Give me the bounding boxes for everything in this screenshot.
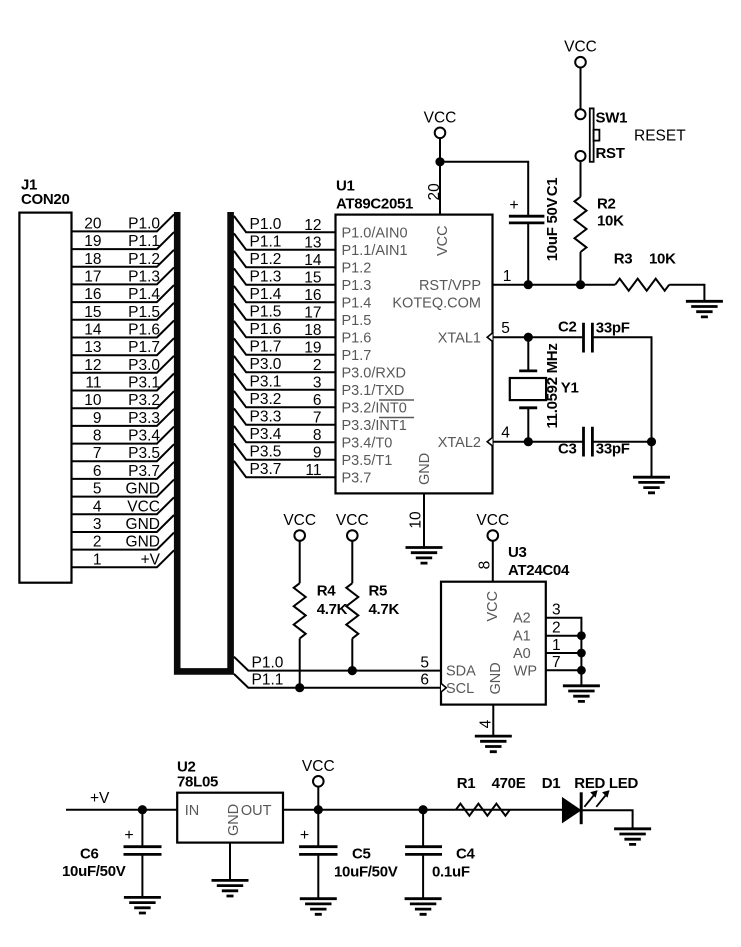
wire J1 pin 1 net +V: [72, 550, 175, 568]
svg-text:7: 7: [313, 410, 322, 427]
svg-text:P3.1/TXD: P3.1/TXD: [342, 383, 405, 399]
diode D1 RED LED: [542, 775, 639, 824]
svg-text:A0: A0: [513, 646, 531, 662]
svg-text:P3.3: P3.3: [128, 410, 160, 427]
svg-text:D1: D1: [542, 775, 561, 792]
ground (U3 pin 4): [475, 736, 512, 752]
svg-text:P3.5: P3.5: [250, 444, 282, 461]
svg-text:VCC: VCC: [564, 39, 597, 56]
resistor R1 470E: [456, 775, 526, 816]
wire U1 P3.0/RXD pin 2: [234, 356, 336, 374]
svg-text:6: 6: [420, 672, 429, 689]
wire U1 P1.3 pin 15: [234, 268, 336, 286]
resistor R5 4.7K: [346, 541, 399, 671]
svg-text:R4: R4: [317, 583, 337, 600]
wire U1 P1.1/AIN1 pin 13: [234, 233, 336, 251]
svg-text:Y1: Y1: [561, 379, 579, 396]
U1 text KOTEQ.COM: [392, 296, 481, 312]
U1 pin name P1.0/AIN0: [342, 226, 408, 242]
wire VCC to U1 pin 20: [426, 138, 443, 215]
svg-text:GND: GND: [126, 516, 160, 533]
U3 pin name A1: [513, 629, 531, 645]
wire +V input: [66, 790, 177, 810]
node junction VCC/C1: [435, 157, 444, 166]
svg-text:5: 5: [420, 655, 429, 672]
U3 pin name A2: [513, 611, 531, 627]
svg-text:SW1: SW1: [596, 110, 628, 127]
svg-text:4.7K: 4.7K: [369, 601, 400, 618]
svg-text:WP: WP: [514, 664, 537, 680]
U1 pin name P3.7: [342, 471, 372, 487]
wire U1 P3.1/TXD pin 3: [234, 373, 336, 391]
node junction XTAL1/Y1: [524, 333, 533, 342]
svg-text:GND: GND: [226, 804, 242, 836]
wire J1 pin 7 net P3.5: [72, 444, 175, 462]
svg-text:5: 5: [93, 481, 102, 498]
node junction C5: [314, 805, 323, 814]
svg-text:P1.6: P1.6: [250, 321, 282, 338]
svg-text:RST/VPP: RST/VPP: [419, 278, 481, 294]
svg-text:P3.5: P3.5: [128, 445, 160, 462]
svg-text:16: 16: [304, 287, 321, 304]
svg-text:R5: R5: [369, 583, 388, 600]
svg-text:VCC: VCC: [336, 512, 369, 529]
ground (R3): [686, 301, 723, 317]
svg-text:P1.1/AIN1: P1.1/AIN1: [342, 243, 408, 259]
wire J1 pin 18 net P1.2: [72, 250, 175, 268]
svg-text:XTAL1: XTAL1: [438, 331, 481, 347]
svg-text:P1.5: P1.5: [128, 304, 160, 321]
svg-text:C4: C4: [456, 846, 476, 863]
svg-text:1: 1: [552, 637, 561, 654]
svg-text:P3.0: P3.0: [250, 356, 282, 373]
svg-text:P1.2: P1.2: [250, 251, 282, 268]
wire J1 pin 20 net P1.0: [72, 214, 175, 232]
svg-text:P1.2: P1.2: [342, 261, 372, 277]
svg-text:R2: R2: [597, 196, 616, 213]
svg-text:0.1uF: 0.1uF: [432, 864, 470, 881]
wire VCC stub: [317, 787, 319, 810]
U3 pin name VCC (rotated): [485, 591, 501, 622]
wire U1 P1.2 pin 14: [234, 251, 336, 269]
svg-text:6: 6: [93, 463, 102, 480]
wire U1 P1.6 pin 18: [234, 321, 336, 339]
wire U1 pin 10 GND: [408, 493, 425, 547]
svg-text:AT24C04: AT24C04: [508, 562, 570, 579]
U1 pin name P3.1/TXD: [342, 383, 405, 399]
U1 pin name P3.0/RXD: [342, 366, 406, 382]
svg-text:P3.2: P3.2: [128, 392, 160, 409]
U1 pin name GND (rotated): [417, 453, 433, 485]
power VCC (R4): [283, 512, 316, 541]
svg-text:11: 11: [305, 462, 321, 479]
power VCC (U3 pin 8): [476, 512, 509, 541]
svg-text:P1.3: P1.3: [128, 268, 160, 285]
svg-text:P1.1: P1.1: [250, 234, 282, 251]
U1 pin name P3.5/T1: [342, 453, 393, 469]
U2 pin name OUT: [241, 803, 272, 819]
svg-text:P3.7: P3.7: [342, 471, 372, 487]
svg-text:R1: R1: [457, 775, 476, 792]
wire J1 pin 8 net P3.4: [72, 427, 175, 445]
resistor R3 10K: [614, 250, 676, 290]
svg-text:4: 4: [93, 498, 102, 515]
wire U1 P3.4/T0 pin 8: [234, 426, 336, 444]
svg-text:P1.5: P1.5: [250, 304, 282, 321]
svg-text:+V: +V: [90, 790, 110, 807]
svg-text:17: 17: [304, 305, 321, 322]
node junction R5/SDA: [348, 666, 357, 675]
ground (C6): [124, 897, 161, 913]
svg-text:A1: A1: [513, 629, 531, 645]
wire J1 pin 11 net P3.1: [72, 374, 175, 392]
power VCC (U2 output): [302, 758, 335, 787]
microcontroller U1 AT89C2051: [336, 178, 493, 494]
ground (U3 address pins): [563, 686, 600, 702]
svg-text:3: 3: [313, 375, 322, 392]
wire U3 pin 2 A1: [546, 620, 586, 641]
svg-text:7: 7: [552, 654, 561, 671]
node junction C4: [419, 805, 428, 814]
svg-text:P3.1: P3.1: [250, 374, 282, 391]
svg-text:P3.4: P3.4: [250, 426, 282, 443]
wire U1 P3.7 pin 11: [234, 461, 336, 479]
wire U1 P3.5/T1 pin 9: [234, 443, 336, 461]
svg-text:12: 12: [84, 357, 101, 374]
power VCC (U1 pin 20): [424, 109, 457, 138]
wire U1 P1.4 pin 16: [234, 286, 336, 304]
ground (U1): [406, 548, 443, 564]
eeprom U3 AT24C04: [441, 544, 570, 705]
node junction R4/SCL: [295, 683, 304, 692]
svg-text:VCC: VCC: [476, 512, 509, 529]
U3 pin name WP: [514, 664, 537, 680]
svg-text:P1.1: P1.1: [128, 233, 160, 250]
wire U3 pin 4 GND: [478, 705, 495, 737]
svg-text:4.7K: 4.7K: [317, 601, 348, 618]
U1 pin name P3.4/T0: [342, 436, 393, 452]
svg-text:2: 2: [552, 620, 561, 637]
svg-text:+: +: [509, 197, 518, 214]
svg-text:11: 11: [85, 375, 101, 392]
wire VCC to U3 pin 8: [477, 541, 494, 582]
ground (D1): [614, 829, 651, 845]
wire J1 pin 5 net GND: [72, 480, 175, 498]
svg-text:9: 9: [93, 410, 102, 427]
U1 pin name P1.3: [342, 278, 372, 294]
svg-text:RED LED: RED LED: [574, 775, 638, 792]
wire J1 pin 15 net P1.5: [72, 303, 175, 321]
wire U1 P3.2/INT0 pin 6: [234, 391, 336, 409]
svg-text:P3.3: P3.3: [250, 409, 282, 426]
wire VCC branch to C1: [440, 162, 528, 215]
ground (C4): [405, 899, 442, 915]
svg-text:2: 2: [93, 534, 102, 551]
crystal Y1 11.0592 MHz: [510, 337, 579, 442]
svg-text:P1.1: P1.1: [252, 672, 284, 689]
svg-text:CON20: CON20: [21, 191, 70, 208]
svg-text:+: +: [300, 827, 309, 844]
wire U2 GND pin: [229, 843, 231, 881]
svg-text:+: +: [124, 827, 133, 844]
svg-text:15: 15: [304, 270, 321, 287]
svg-text:P1.0: P1.0: [250, 216, 282, 233]
svg-text:P1.7: P1.7: [342, 348, 372, 364]
ground (U2): [212, 880, 249, 896]
capacitor C5 10uF/50V (polarized): [299, 810, 398, 899]
svg-text:5: 5: [501, 320, 510, 337]
wire R3 to ground: [669, 285, 704, 302]
svg-text:SCL: SCL: [446, 681, 474, 697]
svg-text:U1: U1: [336, 178, 355, 195]
svg-text:78L05: 78L05: [177, 774, 218, 791]
wire J1 pin 3 net GND: [72, 515, 175, 533]
U3 pin name A0: [513, 646, 531, 662]
svg-text:17: 17: [84, 268, 101, 285]
svg-text:13: 13: [304, 235, 321, 252]
svg-text:8: 8: [93, 428, 102, 445]
svg-text:4: 4: [501, 424, 510, 441]
svg-text:15: 15: [84, 304, 101, 321]
svg-text:P1.7: P1.7: [128, 339, 160, 356]
svg-text:10uF/50V: 10uF/50V: [62, 863, 126, 880]
svg-text:P3.4: P3.4: [128, 428, 160, 445]
svg-text:P1.0/AIN0: P1.0/AIN0: [342, 226, 408, 242]
wire U3 pin 1 A0: [546, 637, 586, 658]
svg-text:2: 2: [313, 357, 322, 374]
U1 pin name VCC (rotated): [435, 225, 451, 256]
U1 pin name P1.2: [342, 261, 372, 277]
wire D1 cathode to ground: [581, 810, 632, 829]
wire J1 pin 16 net P1.4: [72, 285, 175, 303]
svg-text:33pF: 33pF: [596, 319, 630, 336]
U1 pin name P1.7: [342, 348, 372, 364]
svg-text:3: 3: [552, 602, 561, 619]
wire U1 pin 4 XTAL2: [493, 424, 584, 441]
wire U1 P1.0/AIN0 pin 12: [234, 216, 336, 234]
U1 pin name XTAL1 with clock chevron: [438, 331, 493, 347]
svg-text:P3.3/INT1: P3.3/INT1: [342, 418, 407, 434]
wire J1 pin 9 net P3.3: [72, 409, 175, 427]
svg-text:9: 9: [313, 445, 322, 462]
svg-text:P1.0: P1.0: [252, 655, 284, 672]
svg-text:P3.5/T1: P3.5/T1: [342, 453, 393, 469]
svg-text:16: 16: [84, 286, 101, 303]
U3 pin name SDA: [446, 664, 476, 680]
svg-text:P3.0/RXD: P3.0/RXD: [342, 366, 406, 382]
svg-text:1: 1: [93, 551, 102, 568]
svg-text:P1.3: P1.3: [342, 278, 372, 294]
svg-text:4: 4: [478, 719, 495, 728]
capacitor C6 10uF/50V (polarized): [62, 810, 162, 898]
node junction C3/right rail: [592, 437, 656, 477]
svg-text:10: 10: [408, 511, 425, 529]
node junction C1/RST: [524, 280, 533, 289]
wire U1 P3.3/INT1 pin 7: [234, 408, 336, 426]
svg-text:12: 12: [304, 217, 321, 234]
svg-text:20: 20: [426, 183, 443, 201]
svg-text:GND: GND: [417, 453, 433, 485]
svg-text:P1.6: P1.6: [128, 322, 160, 339]
ground (XTAL): [633, 477, 670, 493]
U2 pin name GND (rotated): [226, 804, 242, 836]
svg-text:6: 6: [313, 392, 322, 409]
svg-text:470E: 470E: [492, 775, 526, 792]
wire J1 pin 2 net GND: [72, 533, 175, 551]
U1 pin name P1.6: [342, 331, 372, 347]
wire J1 pin 10 net P3.2: [72, 391, 175, 409]
svg-text:8: 8: [313, 427, 322, 444]
capacitor C1 10uF 50V (polarized): [509, 178, 561, 285]
svg-text:8: 8: [477, 561, 494, 570]
wire J1 pin 4 net VCC: [72, 497, 175, 515]
svg-text:33pF: 33pF: [596, 440, 630, 457]
svg-text:19: 19: [84, 233, 101, 250]
resistor R2 10K: [575, 196, 625, 252]
wire U3 pin 7 WP: [546, 654, 586, 675]
ground (C5): [300, 899, 337, 915]
svg-text:C6: C6: [80, 846, 99, 863]
svg-text:14: 14: [304, 252, 322, 269]
svg-text:P3.4/T0: P3.4/T0: [342, 436, 393, 452]
svg-text:C5: C5: [352, 846, 371, 863]
svg-text:VCC: VCC: [424, 109, 457, 126]
svg-text:P3.0: P3.0: [128, 357, 160, 374]
capacitor C3 33pF: [558, 427, 630, 458]
wire J1 pin 6 net P3.7: [72, 462, 175, 480]
U1 pin name P3.3/INT1: [342, 418, 415, 435]
svg-text:GND: GND: [126, 481, 160, 498]
svg-text:P1.7: P1.7: [250, 339, 282, 356]
U3 pin name SCL with chevron: [441, 681, 474, 697]
svg-text:P3.2/INT0: P3.2/INT0: [342, 401, 407, 417]
U1 pin name P1.5: [342, 313, 372, 329]
connector J1 CON20: [19, 177, 71, 583]
svg-text:P1.4: P1.4: [250, 286, 282, 303]
svg-text:AT89C2051: AT89C2051: [336, 196, 413, 213]
node junction R2/RST: [576, 280, 585, 289]
U1 pin name P1.1/AIN1: [342, 243, 408, 259]
svg-text:10uF 50V: 10uF 50V: [544, 197, 561, 261]
svg-text:3: 3: [93, 516, 102, 533]
bus (thick wire from J1 to U1 and down to U3 SDA/SCL): [177, 212, 230, 671]
svg-text:11.0592 MHz: 11.0592 MHz: [544, 343, 561, 428]
svg-text:RST: RST: [596, 145, 625, 162]
wire P1.1 SCL (bus to U3 pin 6): [234, 672, 441, 689]
wire R2 to RST node: [580, 252, 582, 285]
wire U1 pin 1 RST/VPP: [493, 268, 616, 285]
svg-text:VCC: VCC: [302, 758, 335, 775]
wire SW1 to R2: [580, 161, 582, 197]
U1 pin name XTAL2 with clock chevron: [438, 435, 493, 451]
wire J1 pin 14 net P1.6: [72, 321, 175, 339]
svg-text:C2: C2: [558, 319, 577, 336]
wire U1 P1.5 pin 17: [234, 303, 336, 321]
svg-text:20: 20: [84, 215, 102, 232]
svg-text:RESET: RESET: [634, 128, 686, 145]
wire U1 pin 5 XTAL1: [493, 320, 583, 337]
svg-text:VCC: VCC: [127, 498, 160, 515]
svg-text:C1: C1: [544, 178, 561, 197]
wire U2 OUT to rail: [283, 809, 563, 811]
svg-text:7: 7: [93, 445, 102, 462]
svg-text:10K: 10K: [649, 250, 676, 267]
capacitor C4 0.1uF: [405, 810, 475, 899]
capacitor C2 33pF: [558, 319, 630, 353]
svg-text:19: 19: [304, 340, 321, 357]
svg-text:P1.2: P1.2: [128, 251, 160, 268]
svg-text:XTAL2: XTAL2: [438, 435, 481, 451]
wire U1 P1.7 pin 19: [234, 338, 336, 356]
svg-text:P1.5: P1.5: [342, 313, 372, 329]
resistor R4 4.7K: [294, 541, 348, 688]
power VCC (SW1): [564, 39, 597, 68]
wire J1 pin 13 net P1.7: [72, 338, 175, 356]
svg-text:P3.1: P3.1: [128, 375, 160, 392]
svg-text:10uF/50V: 10uF/50V: [334, 864, 398, 881]
svg-text:SDA: SDA: [446, 664, 476, 680]
svg-text:+V: +V: [141, 551, 161, 568]
svg-text:18: 18: [304, 322, 321, 339]
svg-text:R3: R3: [614, 250, 633, 267]
svg-text:OUT: OUT: [241, 803, 272, 819]
svg-text:P1.6: P1.6: [342, 331, 372, 347]
svg-text:10K: 10K: [597, 212, 624, 229]
svg-text:13: 13: [84, 339, 101, 356]
wire VCC to SW1: [580, 68, 582, 110]
wire J1 pin 12 net P3.0: [72, 356, 175, 374]
svg-text:VCC: VCC: [283, 512, 316, 529]
regulator U2 78L05: [177, 758, 283, 842]
node junction C6/+V: [138, 805, 147, 814]
svg-text:GND: GND: [126, 534, 160, 551]
svg-text:VCC: VCC: [485, 591, 501, 622]
node junction XTAL2/Y1: [524, 437, 533, 446]
svg-text:VCC: VCC: [435, 225, 451, 256]
U1 pin name P3.2/INT0: [342, 400, 415, 417]
U3 pin name GND (rotated): [488, 662, 504, 694]
svg-text:P1.3: P1.3: [250, 269, 282, 286]
svg-text:U3: U3: [508, 544, 527, 561]
svg-text:GND: GND: [488, 662, 504, 694]
svg-text:IN: IN: [185, 803, 200, 819]
svg-text:P1.0: P1.0: [128, 215, 160, 232]
svg-text:C3: C3: [558, 440, 577, 457]
svg-text:P1.4: P1.4: [128, 286, 160, 303]
wire P1.0 SDA (bus to U3 pin 5): [234, 655, 441, 672]
wire J1 pin 19 net P1.1: [72, 232, 175, 250]
svg-text:1: 1: [503, 268, 512, 285]
wire U3 pin 3 A2: [546, 602, 582, 686]
svg-text:14: 14: [84, 322, 102, 339]
U1 pin name P1.4: [342, 296, 372, 312]
U2 pin name IN: [185, 803, 200, 819]
svg-text:P1.4: P1.4: [342, 296, 372, 312]
U1 pin name RST/VPP: [419, 278, 481, 294]
svg-text:P3.2: P3.2: [250, 391, 282, 408]
power VCC (R5): [336, 512, 369, 541]
svg-text:P3.7: P3.7: [250, 461, 282, 478]
svg-text:A2: A2: [513, 611, 531, 627]
svg-text:18: 18: [84, 251, 101, 268]
wire C2 to right rail: [592, 337, 651, 442]
svg-text:P3.7: P3.7: [128, 463, 160, 480]
svg-text:10: 10: [84, 392, 102, 409]
svg-text:KOTEQ.COM: KOTEQ.COM: [392, 296, 481, 312]
switch SW1 RESET (pushbutton): [576, 108, 687, 162]
wire J1 pin 17 net P1.3: [72, 267, 175, 285]
